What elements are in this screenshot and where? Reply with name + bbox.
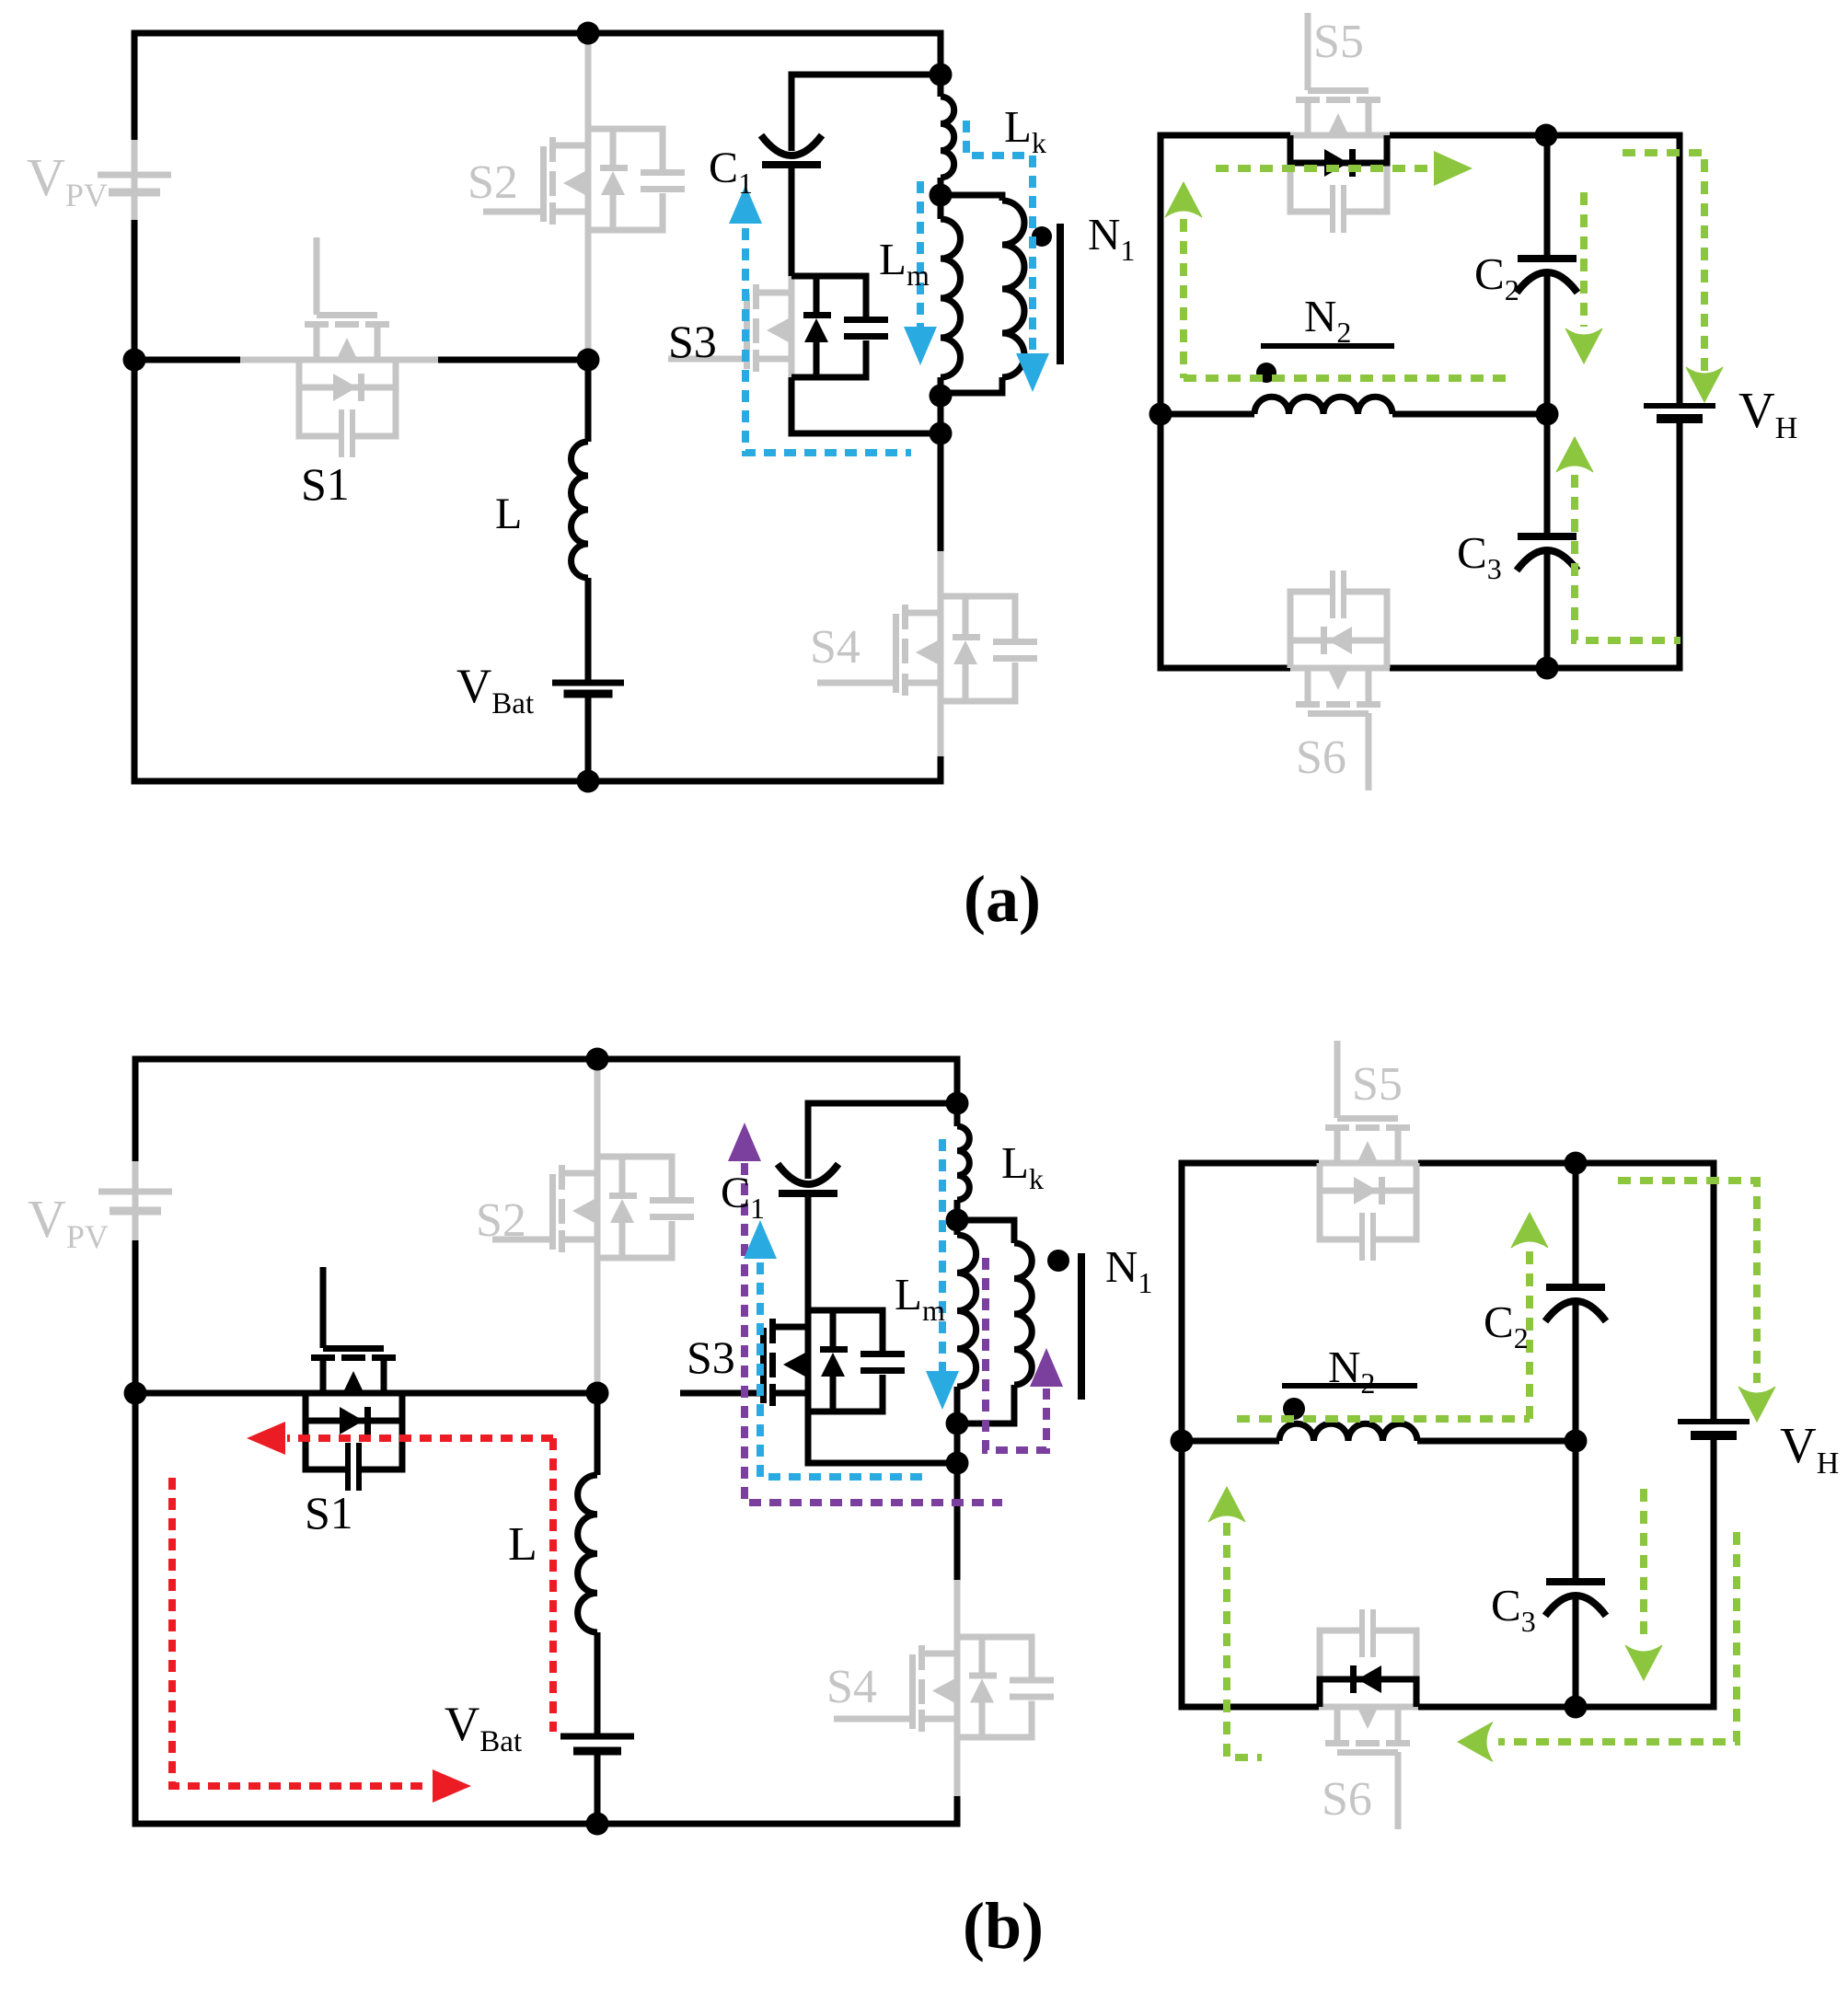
svg-text:S5: S5 — [1313, 16, 1364, 68]
svg-text:S6: S6 — [1322, 1773, 1372, 1826]
svg-text:(b): (b) — [963, 1889, 1044, 1963]
svg-text:S4: S4 — [826, 1661, 877, 1713]
svg-text:S5: S5 — [1352, 1058, 1403, 1111]
svg-text:S2: S2 — [468, 156, 518, 209]
svg-text:S2: S2 — [476, 1194, 526, 1247]
svg-text:S3: S3 — [668, 316, 717, 367]
svg-text:L: L — [495, 490, 522, 538]
svg-text:S6: S6 — [1296, 732, 1346, 784]
svg-text:S1: S1 — [305, 1487, 353, 1538]
svg-text:(a): (a) — [964, 862, 1041, 936]
svg-text:S1: S1 — [301, 458, 350, 510]
svg-text:S4: S4 — [810, 621, 860, 674]
svg-text:L: L — [508, 1518, 537, 1571]
svg-text:S3: S3 — [687, 1331, 735, 1383]
